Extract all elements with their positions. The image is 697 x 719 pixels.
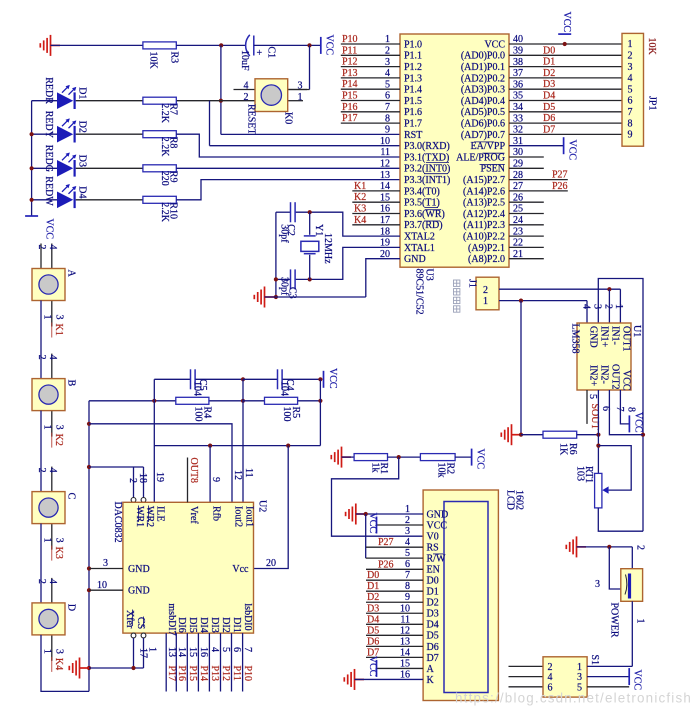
svg-text:XTAL2: XTAL2 [404, 232, 435, 243]
svg-text:P3.7(RD): P3.7(RD) [404, 220, 443, 231]
svg-text:P3.4(T0): P3.4(T0) [404, 186, 440, 197]
wire R5 row [243, 400, 320, 402]
svg-text:D7: D7 [543, 124, 555, 135]
wire S1 pin2 stub [509, 665, 544, 667]
svg-text:DI6: DI6 [176, 617, 187, 633]
wire P2.7 stub [509, 179, 568, 181]
svg-text:XTAL1: XTAL1 [404, 243, 435, 254]
capacitor C1 10uF polarized [246, 35, 250, 56]
VCC power port at R2 [471, 449, 473, 466]
junction LED rail row D2 [30, 132, 34, 136]
svg-text:P17: P17 [166, 666, 177, 682]
svg-text:GND: GND [404, 254, 426, 265]
wire VCC to DAC pin20 [254, 446, 289, 569]
ground G5 at LCD pin16 [344, 669, 364, 690]
svg-text:GND: GND [128, 564, 150, 575]
wire R8 to P3.1 pin11 [176, 134, 400, 157]
svg-text:1: 1 [483, 296, 488, 307]
svg-text:K1: K1 [53, 324, 64, 336]
svg-text:C1: C1 [266, 47, 277, 59]
svg-text:2: 2 [603, 304, 614, 309]
IC U1 LM358 body [577, 323, 631, 390]
wire IN2- down to RT1 [597, 390, 599, 473]
svg-text:1: 1 [42, 315, 53, 320]
wire POWER pin2 drop [631, 547, 633, 569]
svg-text:DI4: DI4 [198, 617, 209, 633]
svg-text:P11: P11 [342, 45, 357, 56]
junction J1 pin1 [519, 299, 523, 303]
svg-text:D1: D1 [77, 87, 88, 99]
resistor R2 10k [420, 454, 455, 461]
VCC power port at LED rail [25, 215, 38, 217]
svg-text:13: 13 [166, 647, 177, 657]
wire S1 pin6 stub [509, 686, 544, 688]
wire S1 pin1 to POWER [587, 665, 632, 667]
svg-text:5: 5 [628, 84, 633, 95]
svg-text:D0: D0 [427, 576, 439, 587]
VCC power port near C1 [320, 37, 322, 54]
junction IN1- feedback [607, 287, 611, 291]
wire RST row to U3 pin9 [221, 133, 400, 135]
svg-text:15: 15 [187, 647, 198, 657]
svg-text:9: 9 [628, 130, 633, 141]
svg-text:3: 3 [405, 526, 410, 537]
svg-text:P3.3(INT1): P3.3(INT1) [404, 175, 450, 186]
svg-text:U2: U2 [257, 500, 268, 512]
svg-text:(AD5)P0.5: (AD5)P0.5 [461, 107, 505, 118]
svg-text:(AD0)P0.0: (AD0)P0.0 [461, 51, 505, 62]
wire R6 to IN2- [577, 434, 599, 436]
svg-text:P15: P15 [187, 666, 198, 682]
wire down to analog gnd [520, 301, 522, 435]
svg-text:5: 5 [587, 394, 598, 399]
svg-text:P1.3: P1.3 [404, 73, 422, 84]
svg-text:https://blog.csdn.net/eletroni: https://blog.csdn.net/eletronicfish [455, 691, 692, 706]
junction C5/C4/Iout1 [241, 377, 245, 381]
svg-text:D6: D6 [427, 642, 439, 653]
wire R3 to C1 [176, 44, 246, 46]
wire P2.6 stub [509, 190, 568, 192]
U2 data pins DI0-DI7 with net labels P10-P17 [165, 633, 167, 691]
svg-text:C: C [66, 493, 77, 500]
junction C4 right VCC [318, 377, 322, 381]
ground G3 near R1 [331, 447, 351, 468]
svg-text:13: 13 [380, 170, 390, 181]
svg-text:2: 2 [635, 545, 646, 550]
svg-text:4: 4 [47, 468, 58, 473]
svg-text:(A15)P2.7: (A15)P2.7 [463, 175, 505, 186]
junction R5 right [318, 399, 322, 403]
svg-text:P3.5(T1): P3.5(T1) [404, 198, 440, 209]
resistor R8 [143, 131, 176, 138]
wire WR1 pin2 [133, 467, 135, 497]
LED D2 [32, 133, 57, 135]
svg-text:P12: P12 [220, 666, 231, 682]
svg-text:P26: P26 [378, 559, 394, 570]
svg-text:18: 18 [137, 473, 148, 483]
svg-text:VCC: VCC [327, 368, 338, 389]
LED D3 [32, 167, 57, 169]
data bus D0-D7 from U3 P0 to connector JP1 [509, 54, 622, 56]
svg-text:30pf: 30pf [279, 277, 290, 296]
svg-text:P13: P13 [342, 68, 358, 79]
svg-text:U3: U3 [424, 269, 435, 281]
svg-text:K2: K2 [354, 192, 366, 203]
svg-text:Iout2: Iout2 [233, 506, 244, 527]
svg-text:B: B [66, 380, 77, 387]
svg-text:Vcc: Vcc [232, 564, 249, 575]
junction analog gnd [519, 433, 523, 437]
svg-text:P14: P14 [342, 79, 358, 90]
svg-text:(A10)P2.2: (A10)P2.2 [463, 232, 505, 243]
svg-text:1: 1 [42, 538, 53, 543]
svg-text:R8: R8 [168, 137, 179, 149]
svg-text:4: 4 [209, 647, 220, 652]
wire K0 pin3 corner [288, 89, 310, 91]
svg-text:P13: P13 [209, 666, 220, 682]
svg-text:Iout1: Iout1 [244, 506, 255, 527]
svg-text:EN: EN [427, 565, 440, 576]
ground G2 near crystal [254, 287, 274, 308]
svg-text:+: + [257, 48, 263, 59]
LED D4 [32, 199, 57, 201]
pin U2 Vref stub [187, 458, 189, 503]
svg-text:(A11)P2.3: (A11)P2.3 [463, 220, 505, 231]
svg-text:10K: 10K [646, 38, 657, 56]
svg-text:D5: D5 [427, 631, 439, 642]
wire POWER pin1 to S1 [631, 601, 633, 666]
svg-text:P12: P12 [342, 57, 358, 68]
wire to P3.0 pin10 [210, 145, 401, 147]
svg-text:msbDI7: msbDI7 [166, 603, 177, 635]
wire XTAL2 net [296, 212, 400, 236]
IC LCD1602 display body [423, 490, 498, 701]
svg-text:(AD4)P0.4: (AD4)P0.4 [461, 96, 505, 107]
junction POWER pin3 tie [607, 545, 611, 549]
junction RT1 wiper loop [596, 444, 600, 448]
junction rail/CS-Xfer [87, 666, 91, 670]
wire ILE/Rfb/VCC row [154, 445, 320, 447]
svg-text:3: 3 [54, 425, 65, 430]
wire Rfb pin9 [209, 446, 211, 503]
wire LCD pin16 K [355, 678, 424, 680]
svg-text:REDY: REDY [43, 111, 54, 138]
svg-text:REDG: REDG [43, 145, 54, 172]
wire LCD pin2 VCC [377, 524, 424, 526]
capacitor C4 104 [243, 378, 277, 380]
svg-text:P11: P11 [231, 666, 242, 681]
svg-text:JP1: JP1 [647, 96, 658, 110]
svg-text:10uF: 10uF [239, 50, 250, 71]
ground G1 top-left [40, 35, 60, 56]
svg-text:D4: D4 [367, 614, 379, 625]
wire XTAL1 net [296, 247, 400, 279]
wire gnd to U3 GND pin20 [265, 296, 366, 298]
svg-text:GND: GND [588, 326, 599, 348]
wire R10 to P3.3 pin13 [176, 180, 400, 200]
svg-text:(AD3)P0.3: (AD3)P0.3 [461, 85, 505, 96]
svg-text:P17: P17 [342, 113, 358, 124]
svg-text:1: 1 [298, 92, 303, 103]
wire OUT2 to right rail [609, 390, 643, 435]
svg-text:16: 16 [198, 647, 209, 657]
U2 CS and Xfer pins with bubbles [131, 633, 136, 638]
svg-text:P15: P15 [342, 91, 358, 102]
svg-text:ILE: ILE [155, 506, 166, 522]
overlines on active-low pin names [426, 161, 449, 163]
ground G7 near R6 [501, 424, 521, 445]
svg-text:P1.4: P1.4 [404, 85, 422, 96]
wire J1 pin1 to GND / IN2 network [499, 300, 587, 302]
resistor R4 100 [176, 397, 209, 404]
svg-text:P16: P16 [342, 102, 358, 113]
IC U2 DAC0832 body [123, 502, 254, 633]
svg-text:2: 2 [127, 478, 138, 483]
VCC power port at EA/VPP [563, 137, 565, 154]
junction Rfb [208, 444, 212, 448]
wire gnd to R3 [51, 44, 143, 46]
wire LCD R/W tie [365, 514, 367, 558]
resistor R3 [143, 42, 176, 49]
VCC power port LCD pin2 [376, 517, 378, 534]
svg-text:Vref: Vref [188, 506, 199, 524]
wire U1 VCC pin8 [620, 390, 629, 424]
junction DAC Vcc branch [286, 444, 290, 448]
label J1 Chinese 波形输出 (drawn as glyph blocks) [454, 280, 460, 286]
potentiometer RT1 103 [595, 473, 602, 508]
svg-text:REDR: REDR [43, 77, 54, 104]
svg-text:R10: R10 [168, 202, 179, 219]
capacitor C2 30pf [290, 202, 292, 222]
svg-text:(AD7)P0.7: (AD7)P0.7 [461, 130, 505, 141]
push button B (K2) [40, 301, 42, 379]
svg-text:2: 2 [36, 468, 47, 473]
svg-text:3: 3 [103, 558, 108, 569]
VCC power port LCD pin15 [376, 660, 378, 677]
wire S1 pin5 stub [587, 686, 629, 688]
svg-text:14: 14 [176, 647, 187, 657]
wire crystal ground rail [275, 212, 277, 297]
svg-text:10: 10 [97, 580, 107, 591]
svg-text:D2: D2 [427, 598, 439, 609]
junction rail/GND10 [87, 588, 91, 592]
LCD data stubs D0-D7 [366, 579, 423, 581]
svg-text:1: 1 [635, 619, 646, 624]
svg-text:K4: K4 [354, 215, 366, 226]
svg-text:(A9)P2.1: (A9)P2.1 [468, 243, 505, 254]
wire Iout1 pin11 [242, 379, 244, 502]
svg-text:IN2+: IN2+ [588, 365, 599, 387]
svg-text:P27: P27 [378, 537, 394, 548]
svg-text:3: 3 [592, 304, 603, 309]
svg-text:3: 3 [595, 579, 600, 590]
svg-text:K1: K1 [354, 181, 366, 192]
U3 pins 1-8 stubs with net labels P10-P17 [341, 43, 400, 45]
junction CS [131, 666, 135, 670]
svg-text:D3: D3 [543, 79, 555, 90]
svg-text:D2: D2 [77, 121, 88, 133]
svg-text:12: 12 [380, 159, 390, 170]
resistor R10 [143, 196, 176, 203]
svg-text:3: 3 [54, 538, 65, 543]
svg-text:10: 10 [380, 136, 390, 147]
svg-text:104: 104 [279, 381, 290, 396]
ground G4 at LCD pin1 [346, 504, 366, 525]
junction rail/WR [87, 465, 91, 469]
svg-text:10K: 10K [148, 52, 159, 70]
junction VCC/K0 pin3 [307, 43, 311, 47]
pin K0 pin3 stub [288, 89, 307, 91]
svg-text:(AD6)P0.6: (AD6)P0.6 [461, 119, 505, 130]
svg-text:1K: 1K [558, 443, 569, 456]
wire LCD GND pin1 [356, 513, 423, 515]
wire VCC row40 to JP1 pin1 [509, 43, 622, 45]
wire rail to Iout2 [89, 424, 232, 503]
svg-text:6: 6 [628, 96, 633, 107]
svg-text:Xfer: Xfer [124, 610, 135, 629]
LED D1 [32, 100, 57, 102]
junction right rail / OUT2 [641, 433, 645, 437]
svg-text:9: 9 [385, 125, 390, 136]
svg-text:P1.2: P1.2 [404, 62, 422, 73]
svg-text:DI5: DI5 [187, 617, 198, 633]
svg-text:EA/VPP: EA/VPP [471, 141, 506, 152]
svg-text:D0: D0 [543, 45, 555, 56]
svg-text:(A8)P2.0: (A8)P2.0 [468, 254, 505, 265]
pin U2 GND10 [89, 589, 123, 591]
wire RT1 wiper loop [598, 446, 631, 491]
wire button D to ground rail [41, 635, 89, 692]
capacitor C3 30pf [290, 269, 292, 289]
svg-text:REDW: REDW [43, 176, 54, 206]
junction LED rail row D4 [30, 198, 34, 202]
junction gnd rail bottom [274, 295, 278, 299]
svg-text:IN2-: IN2- [599, 365, 610, 384]
svg-text:D1: D1 [543, 57, 555, 68]
U3 pins 14-17 stubs with net labels K1-K4 [352, 190, 400, 192]
junction LED rail row D3 [30, 166, 34, 170]
svg-text:WR1: WR1 [134, 506, 145, 527]
svg-text:VCC: VCC [44, 219, 55, 240]
wire C1 to VCC [254, 44, 321, 46]
wire R7 to K0 pin2 row [176, 100, 255, 102]
push button A (K1) [40, 244, 42, 269]
svg-text:A: A [427, 664, 435, 675]
junction VCC tap row40 [563, 42, 567, 46]
svg-text:P1.6: P1.6 [404, 107, 422, 118]
svg-text:(A14)P2.6: (A14)P2.6 [463, 186, 505, 197]
wire U3 GND pin20 [366, 259, 400, 297]
svg-text:LM358: LM358 [570, 324, 581, 354]
resistor R1 1k [354, 454, 387, 461]
svg-text:3: 3 [54, 315, 65, 320]
svg-text:(A12)P2.4: (A12)P2.4 [463, 209, 505, 220]
wire C5/R4 row [89, 400, 243, 402]
svg-text:D4: D4 [543, 91, 555, 102]
svg-text:P1.5: P1.5 [404, 96, 422, 107]
svg-text:7: 7 [614, 407, 625, 412]
svg-text:(A13)P2.5: (A13)P2.5 [463, 198, 505, 209]
svg-text:4: 4 [47, 245, 58, 250]
wire EA/VPP to VCC [509, 145, 564, 147]
svg-text:P3.1(TXD): P3.1(TXD) [404, 152, 449, 163]
svg-text:6: 6 [231, 647, 242, 652]
svg-text:VCC: VCC [632, 670, 643, 691]
svg-text:lsbDI0: lsbDI0 [242, 603, 253, 630]
svg-text:7: 7 [242, 647, 253, 652]
junction R4 right/Iout1 [241, 399, 245, 403]
wire S1 pin4 stub [509, 676, 544, 678]
svg-text:P1.1: P1.1 [404, 51, 422, 62]
wire rail to WR1/WR2 [89, 466, 144, 468]
wire LCD pin6 EN [366, 568, 423, 570]
svg-text:3: 3 [298, 81, 303, 92]
svg-text:89C51/C52: 89C51/C52 [414, 269, 425, 315]
svg-text:3: 3 [628, 62, 633, 73]
svg-text:R9: R9 [168, 171, 179, 183]
svg-text:K4: K4 [53, 658, 64, 670]
VCC power port U1 pin8 [628, 415, 630, 432]
svg-text:S1: S1 [589, 655, 600, 666]
svg-text:OUT2: OUT2 [610, 364, 621, 390]
wire LCD pin5 R/W [366, 557, 423, 559]
svg-text:K3: K3 [53, 547, 64, 559]
svg-text:11: 11 [380, 147, 390, 158]
VCC power port at C4/R5 [323, 371, 325, 388]
wire LCD pin4 RS [366, 546, 423, 548]
svg-text:DI2: DI2 [220, 617, 231, 633]
svg-text:D6: D6 [367, 636, 379, 647]
wire C2 left [276, 211, 290, 213]
resistor R6 1K [543, 431, 577, 438]
svg-text:PSEN: PSEN [481, 164, 505, 175]
wire GND pin4 [586, 301, 588, 323]
svg-text:2: 2 [36, 245, 47, 250]
svg-text:30pf: 30pf [279, 224, 290, 243]
svg-text:R2: R2 [445, 463, 456, 475]
svg-text:D6: D6 [543, 113, 555, 124]
svg-text:2: 2 [244, 92, 249, 103]
wire S1 pin3 to VCC [587, 676, 629, 678]
svg-text:D2: D2 [367, 592, 379, 603]
svg-text:RS: RS [427, 542, 439, 553]
svg-text:K3: K3 [354, 204, 366, 215]
svg-text:D5: D5 [367, 625, 379, 636]
svg-text:P1.0: P1.0 [404, 39, 422, 50]
push button D (K4) [40, 524, 42, 603]
junction IN2-/R6 [596, 433, 600, 437]
junction V0 node [397, 455, 401, 459]
svg-text:2: 2 [36, 579, 47, 584]
junction C3/rail [274, 277, 278, 281]
svg-text:CS: CS [135, 617, 146, 629]
svg-text:4: 4 [244, 81, 249, 92]
svg-text:D: D [66, 604, 77, 611]
svg-text:VCC: VCC [367, 656, 378, 677]
connector JP1 9-pin header [622, 33, 644, 146]
svg-text:VCC: VCC [561, 12, 572, 33]
svg-text:DI3: DI3 [209, 617, 220, 633]
ground G6 at rail [69, 658, 89, 679]
svg-text:(AD2)P0.2: (AD2)P0.2 [461, 73, 505, 84]
svg-text:P14: P14 [198, 666, 209, 682]
svg-text:1: 1 [628, 39, 633, 50]
svg-text:RST: RST [404, 130, 422, 141]
VCC power port above U3 pin40 [558, 33, 571, 35]
svg-text:J1: J1 [467, 279, 478, 288]
wire LCD pin15 A [377, 667, 424, 669]
svg-text:19: 19 [154, 472, 165, 482]
